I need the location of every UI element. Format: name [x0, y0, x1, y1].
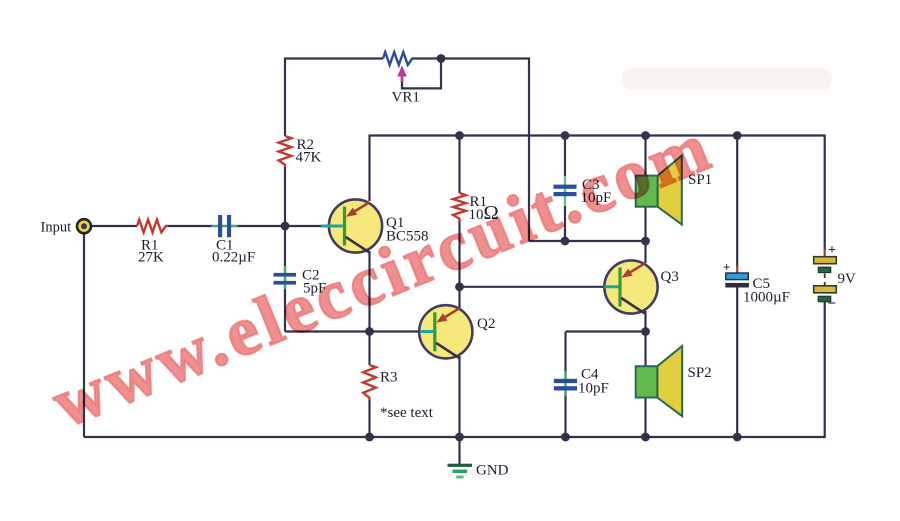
- svg-text:GND: GND: [476, 463, 509, 479]
- node bus/SP1: [641, 131, 650, 140]
- svg-text:VR1: VR1: [392, 90, 420, 106]
- resistor R1 10ohm: [453, 193, 466, 221]
- node Q1 base: [281, 222, 290, 231]
- node R1-10/Q3 base: [455, 282, 464, 291]
- wire Q2 emitter to ground bus: [458, 356, 460, 437]
- wire Q3 emitter down through SP2: [644, 311, 646, 437]
- svg-text:47K: 47K: [296, 150, 322, 166]
- node C5 bottom: [733, 433, 742, 442]
- node C3 bottom: [561, 237, 570, 246]
- wire SP1 branch x645.5: [644, 136, 646, 242]
- wire input to R1: [91, 225, 137, 227]
- node bus/C5: [733, 131, 742, 140]
- speaker SP2: [636, 346, 683, 416]
- capacitor C4 10pF: [554, 371, 577, 396]
- wire R1 10ohm branch x459.5: [458, 136, 460, 194]
- node VR1 right: [437, 54, 446, 63]
- svg-text:R3: R3: [380, 370, 398, 386]
- wire top supply bus y135.5: [370, 134, 825, 136]
- svg-text:Input: Input: [41, 220, 72, 236]
- svg-text:*see text: *see text: [380, 405, 434, 421]
- wire C5 branch x737.2: [736, 136, 738, 268]
- svg-text:Q3: Q3: [661, 269, 679, 285]
- wire R3 leads: [368, 332, 370, 366]
- wire vertical x285 R2 branch: [284, 58, 286, 137]
- wire VR1 wiper L: [402, 60, 441, 89]
- wire y331.5 C2 to Q2 base: [285, 330, 422, 332]
- wire Q3 base run y287: [460, 286, 607, 288]
- resistor R3: [363, 365, 376, 400]
- node bus/R1-10: [455, 131, 464, 140]
- ground: [448, 464, 473, 479]
- wire C4 vertical: [564, 332, 566, 373]
- input jack: [77, 219, 91, 233]
- wire input down: [83, 233, 85, 437]
- wire C3 branch x565: [564, 136, 566, 178]
- watermark: [42, 108, 724, 443]
- speaker SP1: [636, 156, 682, 225]
- capacitor C1 0.22uF: [212, 215, 238, 237]
- wire Q1 emitter down: [368, 251, 370, 332]
- VR1 wiper arrow: [397, 66, 407, 83]
- wire C2 branch vertical x285: [284, 226, 286, 267]
- svg-text:+: +: [828, 243, 836, 258]
- wire R1 to C1: [168, 225, 213, 227]
- node GND: [455, 433, 464, 442]
- node Q3 emitter: [641, 327, 650, 336]
- wire C4 horizontal y331.5: [566, 330, 646, 332]
- battery 9V: [814, 249, 837, 301]
- svg-text:0.22µF: 0.22µF: [212, 250, 255, 266]
- wire top-left rail from R2 top to VR1 left: [285, 57, 383, 59]
- transistor Q3: [604, 260, 658, 313]
- svg-text:27K: 27K: [138, 250, 164, 266]
- svg-text:SP2: SP2: [688, 365, 712, 381]
- ghost smudge: [622, 68, 832, 90]
- wire Q3 collector: [644, 241, 646, 263]
- svg-text:+: +: [723, 260, 730, 275]
- node R3 bottom: [365, 433, 374, 442]
- svg-text:−: −: [828, 296, 837, 312]
- resistor R2 47K: [279, 136, 292, 167]
- node Q1 emitter: [365, 327, 374, 336]
- node C4 bottom: [561, 433, 570, 442]
- node bus/C3: [561, 131, 570, 140]
- transistor Q2: [419, 305, 472, 358]
- wire C1 to Q1 base junction: [237, 225, 323, 227]
- node SP2 bottom: [641, 433, 650, 442]
- svg-text:Q2: Q2: [477, 316, 495, 332]
- wire bottom bus: [84, 436, 825, 438]
- transistor Q1 BC558: [321, 199, 382, 252]
- capacitor C2 5pF: [274, 266, 297, 289]
- capacitor C5 1000uF electrolytic: [725, 266, 749, 288]
- wire GND stub: [458, 437, 460, 464]
- capacitor C3 10pF: [554, 176, 577, 206]
- wire Q1 collector: [368, 135, 370, 202]
- wire VR1 right to corner: [415, 57, 530, 59]
- svg-text:10pF: 10pF: [578, 381, 609, 397]
- svg-text:9V: 9V: [838, 271, 857, 287]
- resistor R1 27K: [137, 220, 168, 233]
- wire horizontal y241 to Q3 collector: [529, 240, 646, 242]
- wire battery branch x824.7: [824, 135, 826, 251]
- svg-text:1000µF: 1000µF: [743, 290, 790, 306]
- node Q3 collector: [641, 237, 650, 246]
- wire vertical x529 VR1 down to collector rail: [528, 58, 530, 242]
- potentiometer VR1: [383, 52, 415, 65]
